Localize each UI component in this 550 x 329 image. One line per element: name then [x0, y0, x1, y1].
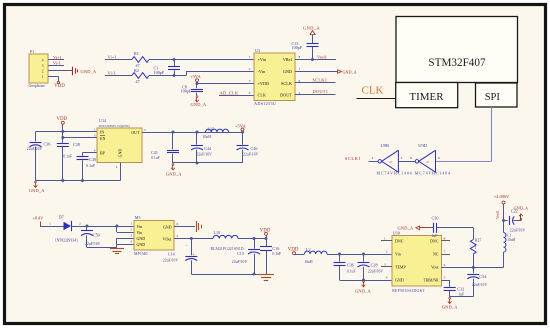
svg-text:EN: EN: [100, 136, 105, 141]
svg-text:C39: C39: [89, 157, 96, 162]
svg-text:GND_A: GND_A: [442, 305, 459, 310]
pin numbers U14: [94, 127, 146, 169]
node junction C44: [196, 131, 199, 134]
ground GND_A above C22: [514, 205, 529, 220]
wire M3 GND pins: [117, 238, 135, 249]
svg-text:1: 1: [475, 246, 477, 250]
capacitor C34: [467, 268, 487, 297]
svg-text:REF5050AIDGKT: REF5050AIDGKT: [392, 289, 425, 293]
wire U14 pin4 BP to C39: [83, 153, 98, 156]
svg-text:47: 47: [389, 160, 393, 164]
svg-text:BP: BP: [100, 150, 106, 155]
svg-text:U10: U10: [393, 230, 400, 235]
node junction C16: [265, 237, 268, 240]
svg-text:VDD: VDD: [54, 84, 65, 89]
regulator M3 body: [134, 215, 174, 256]
wire SPI to inverter output: [436, 107, 492, 162]
svg-text:GND_A: GND_A: [29, 188, 46, 193]
wire L10 to VDD: [238, 238, 266, 240]
ground GND_A above C13: [303, 25, 320, 34]
port CLK label: [362, 85, 384, 97]
svg-text:GND_A: GND_A: [514, 205, 529, 210]
port GND_A above U10: [398, 226, 432, 231]
wire P1 pin3 net Vi-1: [48, 61, 64, 66]
svg-text:SCLK: SCLK: [281, 81, 293, 86]
svg-text:C13: C13: [237, 251, 244, 256]
inductor L2: [304, 247, 327, 264]
svg-text:3: 3: [249, 79, 251, 83]
svg-text:0.1uF: 0.1uF: [272, 252, 281, 256]
wire VDD to U14 pin3 EN: [63, 132, 98, 138]
svg-text:0.1uF: 0.1uF: [63, 154, 72, 158]
wire U10 GND bus: [340, 280, 393, 282]
capacitor C32: [444, 287, 464, 297]
svg-text:Vi+1: Vi+1: [108, 55, 117, 60]
node junction C41: [172, 131, 175, 134]
svg-text:M3: M3: [135, 215, 141, 220]
inverter U9B: [377, 143, 413, 175]
wire U3 pin5 net DOUT1: [295, 89, 336, 94]
power +5VA at L15: [235, 123, 246, 132]
capacitor C41: [151, 132, 179, 163]
svg-text:R2: R2: [134, 68, 139, 73]
ground GND_A below C8: [191, 96, 208, 108]
svg-text:U9D: U9D: [418, 143, 427, 148]
wire U3 pin6 net SCLK1: [295, 78, 336, 83]
resistor R2: [132, 68, 149, 84]
capacitor C36 at U10: [334, 254, 356, 280]
ground GND_A left bus: [29, 181, 46, 193]
resistor R27: [470, 239, 481, 254]
op-amp U3 ADS1255U body: [254, 48, 295, 106]
svg-text:1N5822(SS34): 1N5822(SS34): [55, 239, 79, 243]
svg-text:1: 1: [94, 127, 96, 131]
node junction C46: [241, 131, 244, 134]
node junction C36b: [338, 253, 341, 256]
wire P1 pin2 to ground: [48, 70, 73, 72]
capacitor C1: [154, 60, 181, 76]
capacitor C28: [358, 254, 384, 280]
svg-text:DOUT: DOUT: [280, 92, 292, 97]
svg-text:CLK: CLK: [258, 92, 267, 97]
node junction C38 top: [61, 136, 64, 139]
ground below VDD bus: [258, 275, 274, 281]
svg-text:MC74VHC1404: MC74VHC1404: [415, 171, 451, 176]
svg-text:22uF/16V: 22uF/16V: [243, 152, 259, 156]
node junction C1 bottom: [173, 74, 176, 77]
svg-text:R1: R1: [134, 51, 139, 56]
svg-text:1: 1: [42, 75, 44, 79]
svg-text:C30: C30: [432, 216, 439, 221]
svg-text:Vi-1: Vi-1: [108, 71, 116, 76]
power +5VA at U3: [190, 74, 201, 84]
capacitor C38: [57, 138, 80, 181]
node junction C13b: [253, 237, 256, 240]
svg-text:+5VA: +5VA: [235, 123, 246, 128]
svg-text:22uF/16V: 22uF/16V: [472, 283, 488, 287]
capacitor C36: [27, 132, 51, 181]
svg-text:-Vin: -Vin: [258, 69, 266, 74]
svg-text:L2: L2: [306, 247, 311, 252]
wire P1 pin1 to VDD: [48, 76, 59, 81]
svg-text:22uF/16V: 22uF/16V: [368, 270, 384, 274]
svg-text:1: 1: [49, 221, 51, 225]
svg-text:6: 6: [177, 222, 179, 226]
svg-text:+VDD: +VDD: [258, 81, 270, 86]
svg-text:C46: C46: [251, 146, 258, 151]
wire R27 to Vout rail: [473, 254, 475, 268]
svg-text:GND: GND: [395, 278, 404, 283]
svg-text:SCLK1: SCLK1: [345, 156, 362, 161]
connector P1: [29, 49, 49, 88]
svg-text:CLK: CLK: [362, 85, 384, 97]
svg-text:DNC: DNC: [395, 239, 404, 244]
svg-text:L10: L10: [214, 230, 221, 235]
wire CLK to TIMER: [357, 98, 396, 100]
node junction C14: [190, 237, 193, 240]
wire VDD bus to U14 pin1: [36, 131, 98, 133]
svg-text:4: 4: [249, 91, 251, 95]
svg-text:4: 4: [42, 58, 44, 62]
svg-text:47: 47: [136, 79, 140, 84]
svg-text:Vin: Vin: [395, 252, 401, 257]
svg-text:8: 8: [299, 55, 301, 59]
net label SCLK1 at inverter: [345, 156, 362, 161]
pin numbers U10 right: [444, 237, 446, 280]
svg-text:VOut: VOut: [163, 236, 173, 241]
node junctions on GND bus: [61, 179, 84, 182]
svg-text:2: 2: [42, 69, 44, 73]
reference U10 body: [392, 230, 442, 292]
svg-text:IN: IN: [100, 129, 104, 134]
resistor R1: [132, 51, 149, 68]
wire U3 pin7 to GND_A port: [295, 71, 337, 73]
svg-text:C41: C41: [151, 150, 158, 155]
svg-text:100pF: 100pF: [181, 88, 192, 93]
svg-text:+8.4V: +8.4V: [33, 215, 45, 220]
svg-text:10uH: 10uH: [203, 135, 212, 139]
svg-text:1: 1: [384, 237, 386, 241]
svg-text:GND: GND: [118, 149, 123, 158]
svg-text:TEMP: TEMP: [395, 265, 406, 270]
ground below M3: [110, 249, 124, 254]
svg-text:22uF/10V: 22uF/10V: [163, 258, 179, 262]
svg-text:TRIM/NR: TRIM/NR: [424, 279, 440, 283]
wire net AD_CLK to U3 pin4: [219, 90, 254, 95]
svg-text:C32: C32: [457, 287, 464, 292]
svg-text:2: 2: [79, 221, 81, 225]
svg-text:0.1uF: 0.1uF: [86, 164, 95, 168]
pin stubs U10 right DNC NC: [442, 241, 451, 255]
wire M3 pin6 to ground: [174, 226, 195, 228]
pin numbers U3 left: [249, 55, 251, 95]
svg-text:5: 5: [144, 128, 146, 132]
svg-text:GND_A: GND_A: [343, 69, 357, 74]
node junction bus C13b: [253, 273, 256, 276]
wire C30 to R27: [437, 228, 474, 240]
svg-text:GND_A: GND_A: [81, 69, 98, 74]
svg-text:22uF/16V: 22uF/16V: [85, 242, 101, 246]
power VDD at U14: [57, 117, 68, 132]
svg-text:P1: P1: [30, 49, 34, 54]
pin numbers U9B: [372, 156, 403, 160]
svg-text:2: 2: [249, 67, 251, 71]
wire L2 to U10 pin2: [327, 254, 392, 256]
svg-text:DNC: DNC: [430, 239, 439, 244]
wire U3 pin8 net Vref1: [295, 55, 336, 60]
svg-text:L1: L1: [507, 233, 511, 237]
svg-text:Geophone: Geophone: [29, 83, 46, 88]
svg-text:D7: D7: [59, 214, 64, 219]
svg-text:R27: R27: [475, 239, 481, 243]
capacitor C14 polarized: [163, 239, 198, 275]
svg-text:GND_A: GND_A: [355, 288, 372, 293]
svg-text:GND_A: GND_A: [398, 226, 415, 231]
block STM32F407: [396, 17, 518, 83]
svg-text:C44: C44: [204, 146, 212, 151]
wire P1 pin4 net Vi+1: [48, 55, 64, 60]
wire L1 to Vout rail: [503, 252, 505, 268]
node junction bus C44: [196, 162, 199, 165]
svg-text:2: 2: [386, 250, 388, 254]
svg-text:OUT: OUT: [131, 130, 140, 135]
svg-text:4: 4: [386, 276, 388, 280]
svg-text:0.1uF: 0.1uF: [151, 156, 160, 160]
svg-text:4: 4: [372, 156, 374, 160]
wire R2 to U3 pin2: [149, 72, 254, 76]
inductor L15: [203, 126, 229, 139]
svg-text:100pF: 100pF: [292, 45, 303, 50]
pin numbers M3: [130, 222, 178, 244]
wire M3 VOut rail: [174, 238, 213, 240]
power port GND_A at U3 pin7: [338, 69, 357, 74]
svg-text:GND_A: GND_A: [166, 172, 183, 177]
wire +5VA to U3 pin3: [197, 83, 254, 85]
svg-text:Vi+1: Vi+1: [53, 55, 62, 60]
ferrite bead L10: [211, 230, 244, 251]
svg-text:MC74VHC1404: MC74VHC1404: [377, 171, 413, 176]
pin number D7 cathode: [79, 221, 81, 225]
svg-text:10uH: 10uH: [304, 260, 313, 264]
svg-text:C14: C14: [168, 251, 176, 256]
svg-text:10uH: 10uH: [507, 238, 515, 242]
wire SCLK1 to U9B: [369, 161, 379, 163]
wire M3 pin2 feed: [117, 226, 135, 233]
svg-text:DOUT1: DOUT1: [313, 89, 329, 94]
svg-text:8: 8: [444, 237, 446, 241]
svg-text:C50: C50: [93, 232, 100, 237]
wire U10 pin6 Vout rail: [442, 267, 504, 269]
power VDD at U10: [288, 247, 305, 254]
svg-text:ADS1255U: ADS1255U: [254, 101, 276, 106]
svg-text:6: 6: [444, 263, 446, 267]
svg-text:Vout: Vout: [431, 265, 439, 270]
capacitor C16: [260, 239, 281, 275]
capacitor C44: [191, 132, 212, 163]
svg-text:C36: C36: [347, 262, 354, 267]
node junction C28: [362, 253, 365, 256]
ground GND_A below C32: [442, 297, 459, 309]
svg-text:22uF/10V: 22uF/10V: [510, 228, 526, 232]
inverter U9D: [415, 143, 451, 175]
power VDD mid: [260, 228, 271, 238]
svg-text:47: 47: [136, 63, 140, 68]
node junction C13 on Vref1: [311, 58, 314, 61]
node junction C8: [196, 82, 199, 85]
svg-text:8: 8: [410, 156, 412, 160]
capacitor C46: [237, 132, 259, 163]
svg-text:GND_A: GND_A: [191, 102, 208, 107]
svg-text:22uF/16V: 22uF/16V: [27, 147, 43, 151]
ground GND_A below C28: [355, 281, 372, 294]
svg-text:Vi-1: Vi-1: [53, 61, 61, 66]
power +4.096V: [494, 194, 510, 204]
svg-text:STM32F407: STM32F407: [428, 57, 486, 69]
diode D7: [55, 214, 79, 242]
capacitor C39: [77, 157, 97, 181]
svg-text:GND: GND: [137, 236, 146, 241]
ground at M3 pin6: [197, 221, 202, 232]
power VDD at P1: [54, 81, 65, 89]
capacitor C13 bulk: [232, 239, 260, 275]
svg-text:7: 7: [299, 67, 301, 71]
svg-text:SPX3203M5-5.0(KN0): SPX3203M5-5.0(KN0): [99, 124, 130, 128]
svg-text:U9B: U9B: [381, 143, 390, 148]
pin numbers U3 right: [299, 55, 301, 95]
svg-text:C28: C28: [371, 262, 378, 267]
svg-text:SCLK1: SCLK1: [313, 78, 328, 83]
svg-text:GND_A: GND_A: [303, 25, 320, 30]
svg-text:GND: GND: [163, 224, 172, 229]
wire net Vi+1 to R1: [105, 55, 132, 60]
wire VDD GND bus: [191, 274, 266, 276]
wire R1 to U3 pin1: [149, 59, 254, 61]
svg-text:+Vin: +Vin: [258, 57, 267, 62]
svg-text:3: 3: [94, 133, 96, 137]
wire U14 OUT rail: [142, 132, 243, 134]
node junction R27 bottom: [472, 266, 475, 269]
inductor L1: [504, 233, 516, 253]
capacitor C13: [292, 35, 319, 60]
wire GND bus mid rail: [173, 162, 243, 164]
svg-text:3: 3: [384, 263, 386, 267]
svg-text:C36: C36: [44, 141, 51, 146]
svg-text:C38: C38: [73, 142, 80, 147]
wire net Vi-1 to R2: [105, 71, 132, 76]
svg-text:1uF: 1uF: [432, 234, 438, 238]
svg-text:100pF: 100pF: [154, 70, 165, 75]
ground GND_A at P1 pin2: [73, 67, 98, 76]
wire U14 GND pin to bus: [36, 163, 121, 181]
node junction M3 input: [115, 225, 118, 228]
pin numbers U10 left: [384, 237, 388, 280]
svg-text:+4.096V: +4.096V: [494, 194, 510, 199]
svg-text:Vin: Vin: [137, 224, 143, 229]
node junction VDD: [61, 130, 64, 133]
svg-text:U14: U14: [99, 118, 107, 123]
wire C32 C34 gnd bus: [450, 296, 474, 298]
svg-text:3: 3: [401, 156, 403, 160]
svg-text:GND: GND: [137, 242, 146, 247]
svg-text:Vin: Vin: [137, 230, 143, 235]
svg-text:5: 5: [177, 234, 179, 238]
svg-text:C34: C34: [479, 274, 487, 279]
svg-text:22uF/16V: 22uF/16V: [197, 152, 213, 156]
power +8.4V input: [33, 215, 52, 226]
wire U10 pin5 to C32: [442, 280, 450, 287]
block SPI: [476, 83, 518, 107]
svg-text:2: 2: [116, 165, 118, 169]
svg-text:4: 4: [94, 148, 96, 152]
svg-text:+5VA: +5VA: [190, 74, 201, 79]
node junction bus C28: [362, 279, 365, 282]
node junction C1 top: [173, 58, 176, 61]
capacitor C8: [181, 84, 204, 96]
svg-text:TIMER: TIMER: [409, 91, 444, 103]
svg-text:C16: C16: [272, 246, 279, 251]
capacitor C30: [431, 216, 438, 239]
svg-text:GND: GND: [283, 69, 292, 74]
svg-text:U3: U3: [255, 48, 260, 53]
node junction C50: [86, 225, 89, 228]
svg-text:Vref1: Vref1: [317, 55, 327, 60]
svg-text:SPI: SPI: [485, 92, 501, 103]
net label Vref1 vertical: [496, 210, 500, 219]
capacitor C50: [81, 226, 117, 248]
svg-text:5: 5: [444, 276, 446, 280]
wire L1 to +4.096V: [503, 204, 505, 233]
svg-text:7: 7: [444, 250, 446, 254]
svg-text:NC: NC: [433, 252, 439, 257]
svg-text:1: 1: [249, 55, 251, 59]
wire +8.4V to D7: [51, 226, 64, 228]
svg-text:3: 3: [42, 64, 44, 68]
svg-text:MP1540: MP1540: [134, 252, 147, 256]
block TIMER: [396, 83, 458, 108]
pin stubs U10 left: [381, 241, 392, 267]
regulator U14 body: [97, 118, 142, 162]
svg-text:0.1uF: 0.1uF: [347, 270, 356, 274]
wire D7 to M3: [71, 226, 134, 228]
svg-text:Vref1: Vref1: [496, 210, 500, 219]
svg-text:AD_CLK: AD_CLK: [220, 90, 240, 95]
svg-text:9: 9: [438, 156, 440, 160]
svg-text:L15: L15: [208, 126, 215, 131]
svg-text:22uF/10V: 22uF/10V: [232, 260, 248, 264]
wire U9B to U9D: [398, 161, 415, 163]
ground GND_A below C41: [166, 164, 183, 177]
capacitor C22: [504, 208, 526, 232]
node junction C22: [502, 219, 505, 222]
svg-text:47: 47: [426, 160, 430, 164]
pin numbers U9D: [410, 156, 440, 160]
svg-text:VRef: VRef: [283, 57, 293, 62]
